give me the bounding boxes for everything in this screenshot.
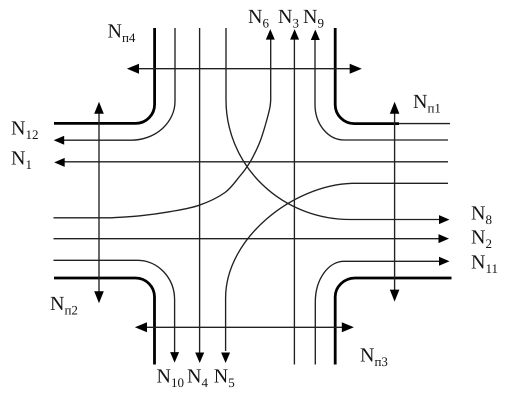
svg-text:N3: N3: [278, 6, 299, 31]
svg-text:Nп1: Nп1: [413, 91, 441, 116]
svg-text:N12: N12: [11, 118, 38, 143]
svg-text:Nп4: Nп4: [108, 20, 136, 45]
svg-text:N4: N4: [187, 366, 208, 391]
svg-text:N9: N9: [303, 6, 324, 31]
svg-text:N5: N5: [214, 366, 235, 391]
svg-text:N6: N6: [248, 6, 269, 31]
svg-text:N2: N2: [471, 227, 492, 252]
svg-text:N1: N1: [11, 148, 32, 173]
svg-text:N8: N8: [471, 203, 492, 228]
svg-text:Nп3: Nп3: [360, 345, 388, 370]
svg-text:N11: N11: [471, 252, 498, 277]
svg-text:N10: N10: [157, 366, 184, 391]
svg-text:Nп2: Nп2: [50, 293, 78, 318]
